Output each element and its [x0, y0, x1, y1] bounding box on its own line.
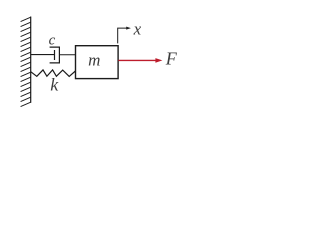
mass m box	[76, 46, 119, 79]
damper C piston plate	[54, 50, 56, 60]
wall	[21, 17, 31, 107]
svg-text:m: m	[88, 50, 100, 69]
force F arrowhead	[155, 58, 162, 63]
wire: damper left rod	[31, 54, 55, 56]
damper C cylinder cup	[50, 47, 60, 63]
svg-text:k: k	[50, 75, 59, 95]
svg-text:x: x	[133, 19, 142, 38]
spring k	[31, 70, 76, 77]
force F arrow shaft	[118, 59, 156, 61]
svg-text:F: F	[165, 49, 178, 69]
coordinate axis x arrowhead	[126, 27, 131, 30]
wire: damper right rod	[59, 54, 75, 56]
coordinate axis x line	[118, 28, 127, 43]
svg-text:c: c	[49, 32, 56, 48]
